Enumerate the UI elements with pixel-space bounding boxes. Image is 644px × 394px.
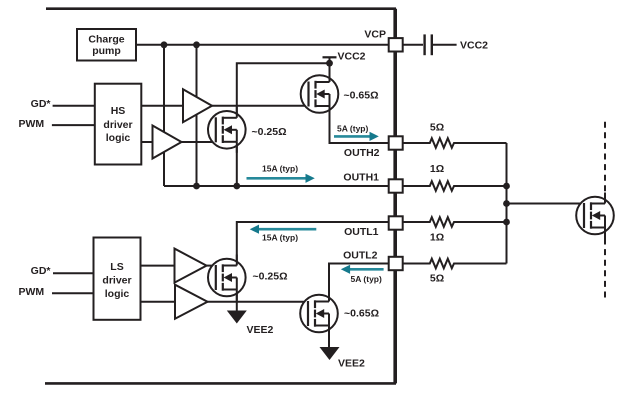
- svg-text:VEE2: VEE2: [338, 358, 365, 370]
- ground: VEE2 below LS 0.25ohm: [227, 311, 247, 324]
- IC boundary (open rectangle, left side open): [45, 9, 395, 384]
- wire: LS logic to upper buffer: [141, 265, 176, 267]
- svg-text:PWM: PWM: [19, 286, 45, 298]
- pin VCP: [389, 38, 403, 51]
- pin OUTH1: [389, 179, 403, 192]
- svg-text:VCC2: VCC2: [460, 39, 488, 51]
- svg-text:OUTH2: OUTH2: [344, 147, 380, 159]
- wire: LS 0.25ohm source down to VEE2: [236, 290, 238, 312]
- node: dot on bus at OUTH1: [503, 183, 510, 190]
- svg-text:GD*: GD*: [31, 265, 52, 277]
- svg-text:OUTL2: OUTL2: [343, 250, 378, 262]
- node: dot on OUTH1 at right rail: [193, 183, 200, 190]
- svg-text:HS: HS: [111, 105, 126, 117]
- charge pump box: [77, 29, 136, 61]
- current arrow: 15A typ out of OUTL1: [250, 225, 317, 243]
- svg-text:5Ω: 5Ω: [430, 122, 444, 134]
- wire: OUTH1 pin to 1ohm resistor to right bus: [403, 181, 507, 191]
- wire: HS 0.25ohm drain up and right to VCC2 node: [237, 63, 330, 118]
- current arrow: 5A typ into OUTL2: [341, 265, 384, 284]
- svg-text:~0.25Ω: ~0.25Ω: [252, 126, 287, 138]
- svg-text:1Ω: 1Ω: [430, 231, 444, 243]
- ground: VEE2 below LS 0.65ohm: [320, 347, 340, 360]
- wire: right vertical rail from charge pump line down to OUTH1: [196, 45, 198, 186]
- wire: VCP pin to capacitor: [403, 44, 423, 46]
- pin OUTL2: [389, 257, 403, 270]
- wire: OUTL1 pin to 1ohm resistor to right bus: [403, 217, 507, 227]
- svg-text:OUTH1: OUTH1: [343, 171, 379, 183]
- transistor: HS 0.25ohm pull-up MOSFET: [208, 107, 246, 153]
- LS driver logic box: [94, 238, 141, 320]
- current arrow: 5A typ out of OUTH2: [334, 124, 379, 142]
- node: dot on charge pump line at right rail: [193, 41, 200, 48]
- svg-text:logic: logic: [105, 288, 130, 300]
- node: dot on bus at OUTL1: [503, 219, 510, 226]
- svg-text:logic: logic: [106, 132, 131, 144]
- svg-text:5Ω: 5Ω: [430, 273, 444, 285]
- wire: LS lower buffer to LS 0.65ohm gate: [205, 301, 308, 303]
- wire: gate line from bus to external MOSFET: [507, 203, 585, 205]
- transistor: external power MOSFET: [576, 193, 614, 239]
- node: dot on bus at gate line: [503, 200, 510, 207]
- svg-text:VCP: VCP: [364, 28, 386, 40]
- svg-text:driver: driver: [103, 119, 132, 131]
- wire: PWM input to HS driver logic: [52, 124, 96, 126]
- transistor: HS 0.65ohm MOSFET: [301, 71, 339, 117]
- transistor: LS 0.65ohm MOSFET: [300, 291, 338, 337]
- wire: HS logic to lower buffer: [141, 141, 153, 143]
- wire: LS 0.65ohm drain up and right to OUTL2 pin: [329, 264, 389, 302]
- capacitor C1 external VCC2 bypass: [425, 34, 457, 55]
- transistor: LS 0.25ohm MOSFET: [208, 255, 246, 301]
- dashed drain bus of external MOSFET (upper): [604, 122, 606, 193]
- wire: HS logic to upper buffer: [141, 105, 183, 107]
- svg-text:VCC2: VCC2: [338, 50, 366, 62]
- wire: right vertical bus: [506, 143, 508, 264]
- VCC2 supply tap: [323, 57, 337, 63]
- wire: OUTH1 horizontal line: [164, 185, 389, 187]
- svg-text:5A (typ): 5A (typ): [337, 124, 368, 134]
- wire: OUTL2 pin to 5ohm resistor to right bus: [403, 259, 507, 269]
- wire: LS PWM input: [52, 292, 94, 294]
- svg-text:PWM: PWM: [19, 118, 45, 130]
- wire: LS upper buffer to LS 0.25ohm gate: [205, 265, 216, 267]
- wire: HS 0.25ohm source down to OUTH1: [236, 142, 238, 186]
- wire: LS 0.25ohm drain up and right to OUTL1 pin: [237, 222, 389, 266]
- node: dot on OUTH1 at 0.25ohm source: [233, 183, 240, 190]
- buffer: LS lower driver: [175, 285, 208, 319]
- wire: HS 0.65ohm drain up to VCC2 node: [329, 63, 331, 82]
- wire: charge pump output to VCP pin: [136, 44, 389, 46]
- svg-text:GD*: GD*: [31, 98, 52, 110]
- svg-text:1Ω: 1Ω: [430, 163, 444, 175]
- dashed source bus of external MOSFET (lower): [604, 239, 606, 300]
- svg-text:~0.25Ω: ~0.25Ω: [253, 270, 288, 282]
- wire: upper buffer output to HS 0.65ohm gate: [211, 105, 309, 107]
- pin OUTL1: [389, 216, 403, 229]
- buffer: LS upper driver: [175, 249, 207, 283]
- svg-text:15A (typ): 15A (typ): [262, 233, 298, 243]
- wire: LS GD* input: [53, 272, 94, 274]
- svg-text:15A (typ): 15A (typ): [262, 164, 298, 174]
- HS driver logic box: [95, 84, 142, 165]
- wire: lower buffer output to HS 0.25ohm gate: [181, 141, 216, 143]
- svg-text:5A (typ): 5A (typ): [351, 274, 382, 284]
- wire: GD* input to HS driver logic: [53, 105, 96, 107]
- svg-text:~0.65Ω: ~0.65Ω: [344, 89, 379, 101]
- svg-text:~0.65Ω: ~0.65Ω: [344, 308, 379, 320]
- pin OUTH2: [389, 136, 403, 149]
- node: dot on charge pump line at left rail: [161, 41, 168, 48]
- svg-text:LS: LS: [110, 261, 123, 273]
- buffer: HS upper driver: [183, 89, 212, 122]
- svg-text:Charge: Charge: [88, 34, 124, 46]
- wire: left vertical rail from charge pump line down to OUTH1: [163, 45, 165, 186]
- wire: LS 0.65ohm source down to VEE2: [328, 326, 330, 349]
- svg-text:VEE2: VEE2: [247, 324, 274, 336]
- svg-text:pump: pump: [92, 45, 121, 57]
- current arrow: 15A typ into OUTH1: [247, 164, 315, 183]
- node: VCC2 junction dot: [326, 60, 333, 67]
- svg-text:OUTL1: OUTL1: [344, 226, 379, 238]
- wire: OUTH2 pin to 5ohm resistor to right bus: [403, 138, 507, 148]
- wire: HS 0.65ohm source down and right to OUTH2 pin: [330, 106, 390, 143]
- wire: LS logic to lower buffer: [141, 301, 177, 303]
- buffer: HS lower driver: [153, 126, 182, 159]
- svg-text:driver: driver: [102, 275, 131, 287]
